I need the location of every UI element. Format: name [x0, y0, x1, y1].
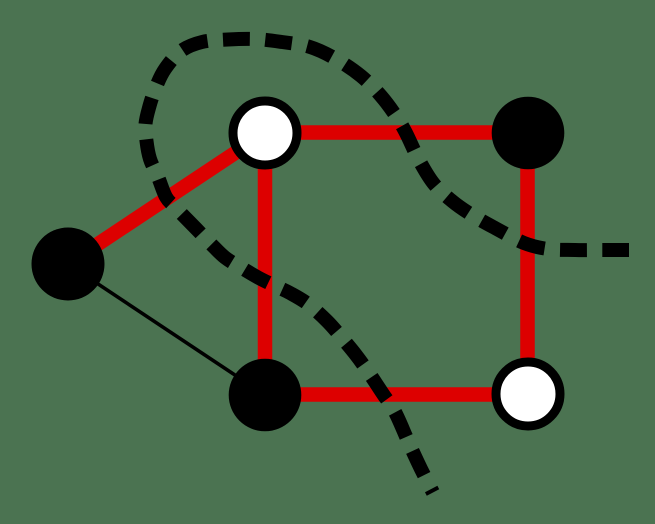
node C (black, left): [32, 228, 105, 301]
edge A-D (red, center vertical): [258, 133, 273, 395]
dashed curve (black, spiral path): [145, 39, 629, 493]
edge C-D (thin black diagonal): [68, 264, 265, 395]
node A (white, top): [233, 101, 297, 165]
node B (black, top right): [492, 97, 565, 170]
edge B-E (red, right vertical): [520, 133, 535, 394]
node D (black, bottom center): [229, 359, 302, 432]
edge A-C (red, diagonal to left node): [68, 133, 265, 264]
edge A-B (red, top horizontal): [265, 125, 528, 140]
edge D-E (red, bottom horizontal): [265, 387, 528, 402]
node E (white, bottom right): [496, 362, 560, 426]
